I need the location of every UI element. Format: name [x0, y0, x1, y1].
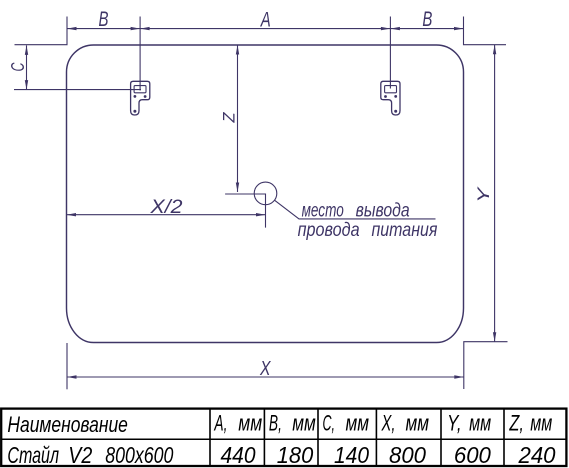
svg-text:мм: мм	[469, 411, 491, 436]
right mounting bracket (mirrored keyhole hanger)	[381, 81, 400, 115]
svg-text:X: X	[259, 358, 271, 380]
svg-text:Стайл: Стайл	[7, 442, 59, 468]
svg-text:X/2: X/2	[149, 196, 182, 218]
svg-text:мм: мм	[238, 411, 262, 436]
extension line bottom-right corner	[464, 342, 508, 389]
svg-text:питания: питания	[372, 220, 438, 241]
table column dividers	[209, 409, 211, 466]
arrowheads dimension Z	[236, 45, 239, 55]
table outer border	[1, 409, 566, 466]
center mark of circle	[225, 194, 265, 228]
svg-text:Z: Z	[220, 112, 239, 124]
svg-text:место: место	[302, 201, 344, 222]
svg-text:X,: X,	[381, 411, 396, 436]
svg-text:А,: А,	[213, 411, 227, 436]
svg-text:Наименование: Наименование	[7, 412, 128, 437]
extension line bottom-left	[66, 343, 68, 389]
svg-text:мм: мм	[292, 411, 316, 436]
svg-text:800x600: 800x600	[105, 442, 173, 468]
cable outlet circle	[254, 182, 277, 205]
svg-text:B: B	[99, 8, 109, 31]
svg-text:B: B	[422, 8, 432, 31]
dimension line X/2	[67, 214, 266, 216]
extension line top-left corner	[15, 17, 68, 45]
leader line to note	[275, 200, 436, 219]
svg-text:провода: провода	[298, 220, 360, 241]
arrowheads dimension X/2	[67, 213, 77, 216]
svg-text:600: 600	[454, 442, 491, 468]
mirror outline (rounded rectangle)	[67, 45, 464, 343]
dimension line B left	[67, 28, 140, 30]
arrowheads dimension B left	[67, 27, 77, 30]
svg-text:С,: С,	[323, 411, 336, 436]
svg-text:вывода: вывода	[356, 201, 410, 222]
dimension line Y	[494, 45, 496, 342]
arrowheads dimension Y	[493, 45, 496, 55]
svg-text:V2: V2	[68, 442, 92, 468]
arrowheads dimension A	[140, 27, 150, 30]
dimension line B right	[390, 28, 463, 30]
svg-text:мм: мм	[406, 411, 430, 436]
table row divider	[1, 438, 566, 440]
svg-text:800: 800	[389, 442, 426, 468]
left mounting bracket (keyhole hanger)	[131, 81, 150, 115]
centerline left bracket	[139, 17, 141, 91]
svg-text:мм: мм	[346, 411, 370, 436]
svg-text:240: 240	[518, 442, 556, 468]
svg-text:Y: Y	[474, 186, 493, 203]
svg-text:мм: мм	[530, 411, 552, 436]
arrowheads dimension C	[25, 45, 28, 55]
svg-text:C: C	[7, 62, 28, 71]
extension line top-right corner	[464, 17, 507, 45]
svg-text:Y,: Y,	[447, 411, 462, 436]
dimension line Z	[237, 45, 239, 192]
svg-text:Z,: Z,	[509, 411, 524, 436]
svg-text:A: A	[259, 9, 270, 32]
svg-text:В,: В,	[269, 411, 282, 436]
arrowheads dimension B right	[390, 27, 400, 30]
dimension line C	[26, 45, 28, 89]
svg-text:140: 140	[334, 442, 369, 468]
svg-text:440: 440	[221, 442, 256, 468]
svg-text:180: 180	[277, 442, 314, 468]
dimension line A	[140, 28, 390, 30]
extension line bracket level left	[14, 89, 141, 91]
dimension line X	[67, 376, 464, 378]
arrowheads dimension X	[67, 375, 77, 378]
centerline right bracket	[389, 17, 391, 89]
